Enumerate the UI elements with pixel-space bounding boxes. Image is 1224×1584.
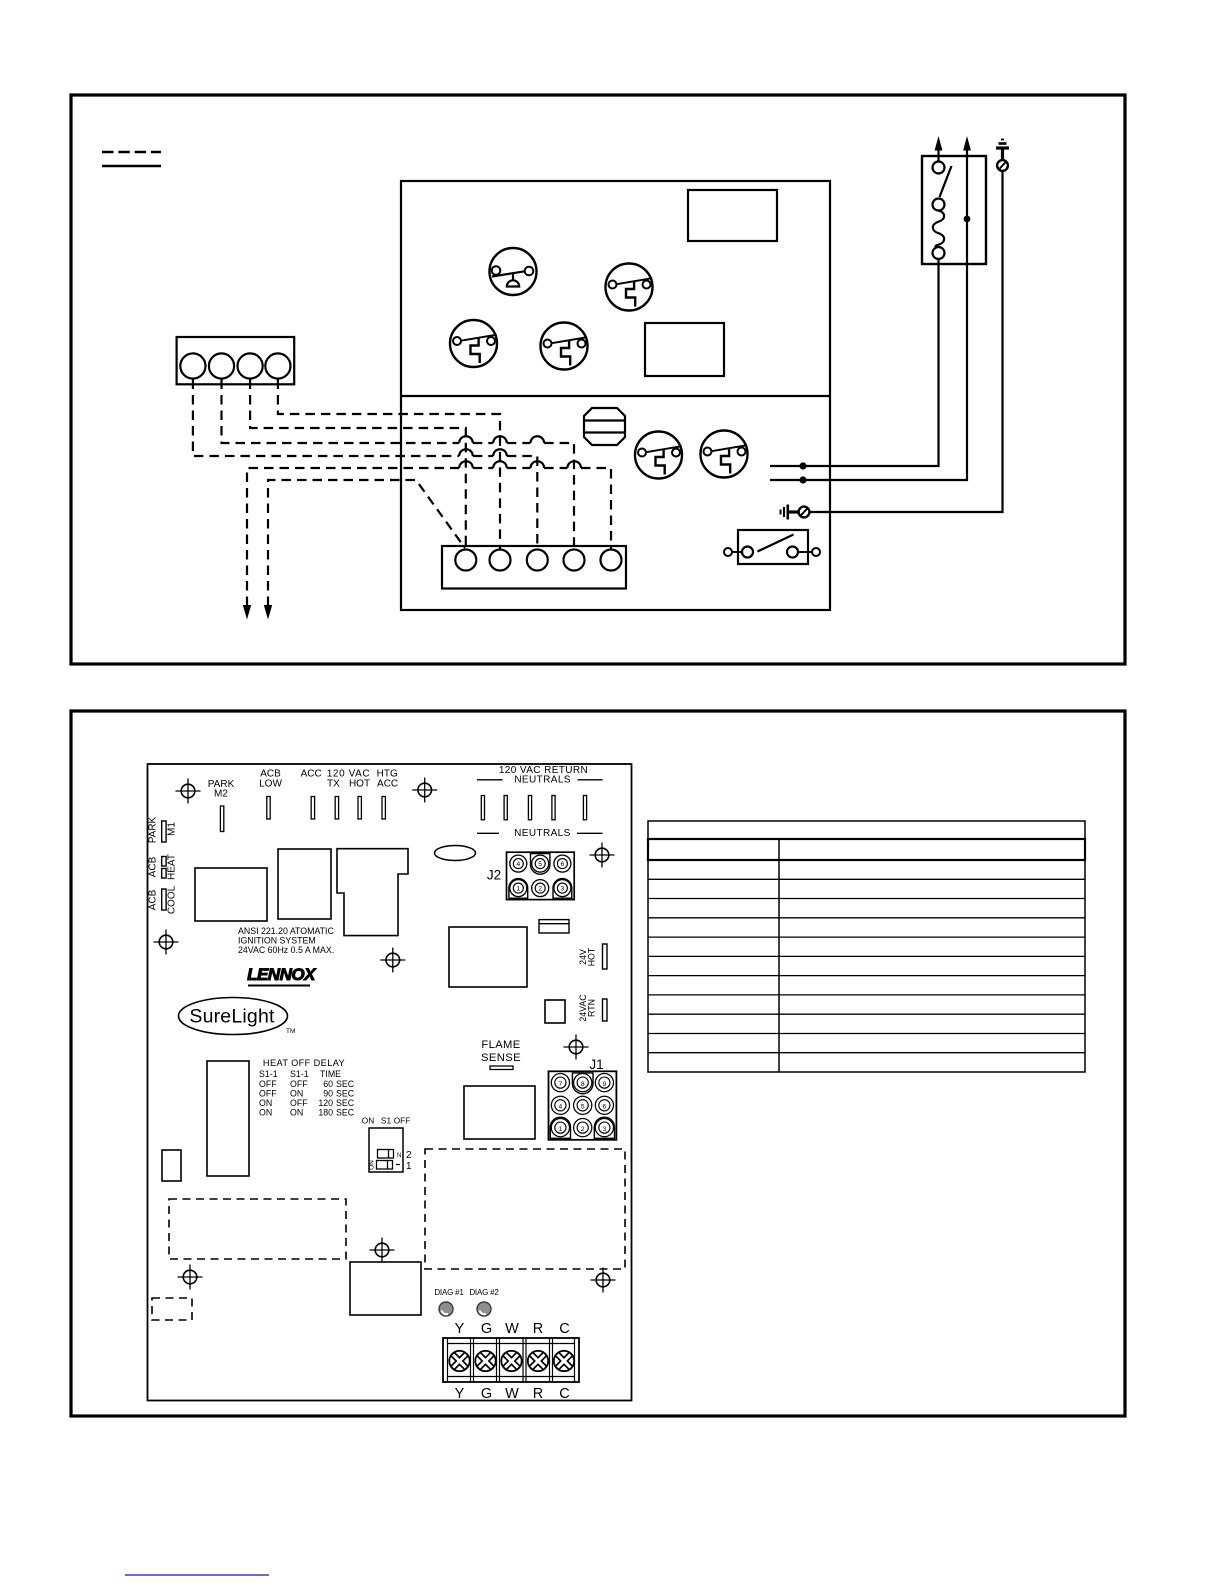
svg-text:ON: ON xyxy=(362,1116,374,1126)
terminal screw C xyxy=(554,1351,574,1371)
svg-text:TX: TX xyxy=(327,779,340,790)
svg-text:LENNOX: LENNOX xyxy=(247,965,317,984)
svg-text:4: 4 xyxy=(559,1104,563,1111)
limit switch S2 xyxy=(450,320,497,367)
svg-text:SEC: SEC xyxy=(336,1079,355,1089)
svg-text:ON: ON xyxy=(290,1089,303,1099)
svg-text:LOW: LOW xyxy=(259,779,282,790)
pin 24V HOT xyxy=(603,944,608,969)
svg-text:M1: M1 xyxy=(167,822,178,836)
control board outline xyxy=(148,764,632,1401)
small stacked pads xyxy=(539,920,569,933)
connector J2 xyxy=(507,852,575,899)
dashed wire E: down arrow lead to strip terminal 5 (hops V1-V4) xyxy=(247,468,611,606)
pin ACB LOW xyxy=(267,797,270,820)
svg-text:ON: ON xyxy=(259,1108,272,1118)
terminal screw Y xyxy=(449,1351,469,1371)
pin 24VAC RTN xyxy=(603,999,608,1021)
svg-text:5: 5 xyxy=(581,1104,585,1111)
svg-text:2: 2 xyxy=(581,1126,585,1133)
legend dashed line (field wiring) xyxy=(102,151,161,153)
legend solid line (factory wiring) xyxy=(102,165,161,167)
small rectangle component xyxy=(162,1150,181,1181)
dashed outline relay area left xyxy=(169,1199,346,1259)
svg-text:OFF: OFF xyxy=(290,1079,308,1089)
flame sensor rectangle xyxy=(464,1086,535,1139)
arrow up L1 xyxy=(937,147,939,162)
svg-text:RTN: RTN xyxy=(587,999,597,1017)
left field terminal block (4 terminals) xyxy=(177,337,295,384)
mounting screw top left xyxy=(176,779,201,804)
svg-text:HOT: HOT xyxy=(587,947,597,966)
svg-text:90: 90 xyxy=(323,1089,333,1099)
svg-text:ANSI 221.20 ATOMATIC: ANSI 221.20 ATOMATIC xyxy=(238,926,334,936)
svg-text:R: R xyxy=(533,1321,543,1337)
svg-text:TM: TM xyxy=(286,1028,295,1035)
terminal screw W xyxy=(501,1351,521,1371)
wire nut octagon xyxy=(584,408,625,445)
svg-text:COOL: COOL xyxy=(167,885,178,914)
svg-text:120: 120 xyxy=(318,1098,333,1108)
arrowhead wire F xyxy=(264,605,272,620)
pin HOT xyxy=(358,797,361,820)
mounting screw top center xyxy=(412,778,437,803)
svg-text:Y: Y xyxy=(455,1386,465,1402)
svg-text:PARK: PARK xyxy=(148,816,159,843)
panel 2 frame xyxy=(71,711,1125,1416)
cabinet divider line xyxy=(401,395,830,397)
svg-text:S1-1: S1-1 xyxy=(259,1069,278,1079)
svg-text:7: 7 xyxy=(559,1081,563,1088)
svg-text:ACC: ACC xyxy=(377,779,398,790)
terminal screw R xyxy=(528,1351,548,1371)
LED DIAG #2 xyxy=(477,1302,491,1316)
svg-text:SureLight: SureLight xyxy=(189,1006,275,1028)
dashed wire B: terminal 3 to strip terminal 1 xyxy=(250,380,466,550)
svg-text:1: 1 xyxy=(559,1126,563,1133)
svg-text:HEAT: HEAT xyxy=(167,854,178,880)
svg-text:SENSE: SENSE xyxy=(481,1052,521,1064)
svg-text:NEUTRALS: NEUTRALS xyxy=(514,828,571,839)
limit switch S4 xyxy=(635,432,682,479)
pin HTG ACC xyxy=(382,797,385,820)
mounting screw lower left xyxy=(178,1265,203,1290)
svg-text:OFF: OFF xyxy=(259,1089,277,1099)
svg-text:HOT: HOT xyxy=(349,779,370,790)
pressure switch PS xyxy=(490,248,537,295)
chassis ground screw inside furnace xyxy=(781,505,810,520)
wire neutral L2 xyxy=(770,149,967,480)
svg-text:60: 60 xyxy=(323,1079,333,1089)
svg-text:ON: ON xyxy=(369,1160,376,1170)
svg-text:Y: Y xyxy=(455,1321,465,1337)
svg-text:OFF: OFF xyxy=(394,1116,411,1126)
external ground symbol xyxy=(996,140,1009,171)
flame sense pad xyxy=(490,1066,513,1070)
svg-text:OFF: OFF xyxy=(259,1079,277,1089)
svg-text:OFF: OFF xyxy=(290,1098,308,1108)
svg-text:180: 180 xyxy=(318,1108,333,1118)
thermostat terminal block xyxy=(443,1338,579,1382)
LED DIAG #1 xyxy=(439,1302,453,1316)
pin PARK M1 xyxy=(162,821,166,842)
svg-text:SEC: SEC xyxy=(336,1108,355,1118)
svg-text:C: C xyxy=(559,1321,569,1337)
hyperlink underline bottom xyxy=(125,1574,269,1576)
furnace cabinet box xyxy=(401,181,830,610)
junction dot on L2 in switch box xyxy=(964,216,971,223)
relay K1 rectangle xyxy=(195,868,267,921)
neutral pins xyxy=(481,796,484,820)
external disconnect switch box xyxy=(922,156,986,264)
door interlock switch xyxy=(724,530,820,564)
SureLight logo xyxy=(179,998,296,1036)
terminal screw G xyxy=(475,1351,495,1371)
LENNOX logo xyxy=(247,965,317,986)
thermostat letters top xyxy=(455,1321,570,1337)
disconnect switch internals xyxy=(933,162,952,260)
pin PARK M2 xyxy=(220,806,223,832)
thermostat letters bottom xyxy=(455,1386,570,1402)
svg-text:2: 2 xyxy=(406,1150,412,1161)
svg-text:IGNITION SYSTEM: IGNITION SYSTEM xyxy=(238,936,316,946)
mounting screw left mid xyxy=(154,930,179,955)
svg-text:M2: M2 xyxy=(214,789,228,800)
svg-text:9: 9 xyxy=(603,1081,607,1088)
dashed outline area right xyxy=(425,1149,625,1269)
panel 1 frame xyxy=(71,95,1125,664)
pin ACB COOL xyxy=(162,889,166,910)
svg-text:5: 5 xyxy=(538,861,542,868)
svg-text:G: G xyxy=(481,1321,492,1337)
svg-text:DIAG #1: DIAG #1 xyxy=(434,1288,464,1297)
svg-text:3: 3 xyxy=(561,886,565,893)
dashed wire D: terminal 1 to strip terminal 3 (hops V1 V2) xyxy=(193,380,537,550)
junction dot xyxy=(799,476,806,483)
igniter relay polygon xyxy=(337,849,408,936)
svg-text:DIAG #2: DIAG #2 xyxy=(469,1288,499,1297)
svg-text:W: W xyxy=(505,1386,519,1402)
svg-text:6: 6 xyxy=(603,1104,607,1111)
limit switch S5 xyxy=(701,431,748,478)
heat off delay table xyxy=(259,1058,355,1118)
svg-text:3: 3 xyxy=(603,1126,607,1133)
svg-text:S1-1: S1-1 xyxy=(290,1069,309,1079)
mounting screw center xyxy=(380,948,405,973)
oval pad xyxy=(435,846,476,861)
tall rectangle component xyxy=(207,1061,249,1176)
low voltage terminal strip (5 terminals) xyxy=(442,546,626,589)
svg-text:6: 6 xyxy=(561,861,565,868)
arrow up L2 xyxy=(963,136,971,151)
legend table right xyxy=(648,821,1085,1072)
mounting screw lower right xyxy=(591,1268,616,1293)
connector J1 xyxy=(549,1071,617,1140)
square pad xyxy=(545,1000,565,1023)
mounting screw right of neutrals xyxy=(590,843,615,868)
arrowhead wire E xyxy=(243,605,251,620)
svg-text:TIME: TIME xyxy=(320,1069,341,1079)
svg-text:1: 1 xyxy=(406,1161,412,1172)
svg-text:SEC: SEC xyxy=(336,1089,355,1099)
dashed wire F: down arrow lead diagonal to strip terminal 1 xyxy=(268,480,465,606)
svg-text:NEUTRALS: NEUTRALS xyxy=(514,775,571,786)
relay K2 rectangle xyxy=(278,849,331,919)
svg-text:S1: S1 xyxy=(381,1116,392,1126)
svg-text:1: 1 xyxy=(516,886,520,893)
svg-text:SEC: SEC xyxy=(336,1098,355,1108)
svg-text:N: N xyxy=(397,1153,401,1159)
svg-text:HEAT OFF DELAY: HEAT OFF DELAY xyxy=(263,1058,345,1068)
svg-text:24VAC 60Hz 0.5 A MAX.: 24VAC 60Hz 0.5 A MAX. xyxy=(238,945,334,955)
svg-text:ON: ON xyxy=(290,1108,303,1118)
pin TX xyxy=(335,797,338,820)
mounting screw by J1 xyxy=(564,1035,589,1060)
svg-text:J2: J2 xyxy=(487,867,501,882)
svg-text:ACC: ACC xyxy=(301,769,322,780)
svg-text:8: 8 xyxy=(581,1081,585,1088)
svg-text:ACB: ACB xyxy=(148,889,159,910)
limit switch S1 xyxy=(606,264,653,311)
control box rectangle (top right) xyxy=(688,190,777,241)
dashed wire A: terminal 4 to strip terminal 2 xyxy=(278,380,500,550)
svg-text:ACB: ACB xyxy=(148,856,159,877)
pin ACC xyxy=(311,797,314,820)
svg-text:W: W xyxy=(505,1321,519,1337)
transformer rectangle xyxy=(449,927,527,987)
svg-text:ON: ON xyxy=(259,1098,272,1108)
pins ACB HEAT xyxy=(162,857,166,867)
svg-text:J1: J1 xyxy=(589,1057,603,1072)
svg-text:R: R xyxy=(533,1386,543,1402)
svg-text:4: 4 xyxy=(516,861,520,868)
transformer rectangle (lower right of top section) xyxy=(645,323,724,376)
wire hot L1: switch to furnace xyxy=(770,259,939,466)
limit switch S3 xyxy=(541,323,588,370)
dashed wire C: terminal 2 to strip terminal 4 (hops V1 V2 V3) xyxy=(222,380,575,550)
relay rectangle bottom center xyxy=(350,1262,421,1315)
junction dot xyxy=(799,462,806,469)
mounting screw above relay xyxy=(370,1238,395,1263)
svg-text:2: 2 xyxy=(538,886,542,893)
svg-text:G: G xyxy=(481,1386,492,1402)
DIP switch S1 xyxy=(362,1116,412,1173)
svg-text:FLAME: FLAME xyxy=(481,1039,520,1051)
svg-text:C: C xyxy=(559,1386,569,1402)
dashed outline small xyxy=(152,1298,192,1320)
ground wire xyxy=(809,171,1003,512)
